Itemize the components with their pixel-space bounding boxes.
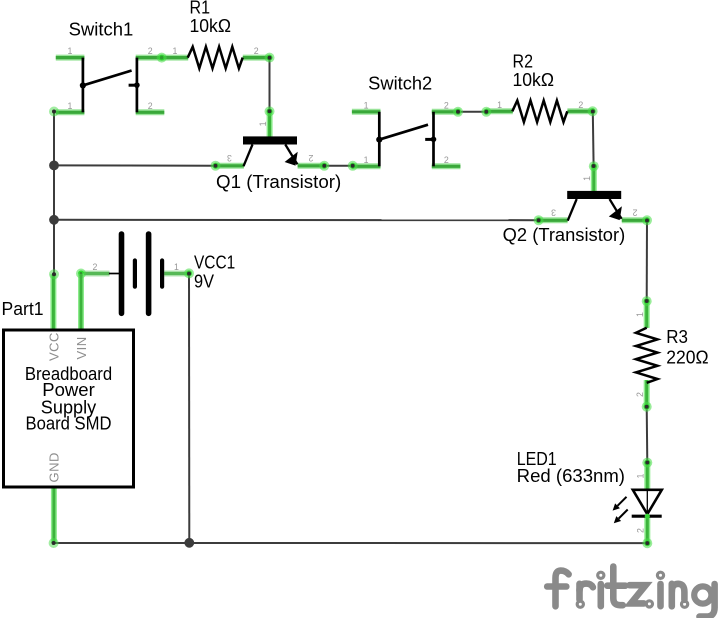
IC Part1 breadboard power supply board xyxy=(4,274,134,544)
svg-text:2: 2 xyxy=(444,155,449,165)
svg-text:GND: GND xyxy=(46,452,61,482)
resistor R2 10k xyxy=(486,100,594,122)
svg-text:VCC: VCC xyxy=(46,332,61,361)
svg-text:1: 1 xyxy=(68,101,73,111)
svg-text:3: 3 xyxy=(551,208,556,218)
svg-text:1: 1 xyxy=(174,262,179,272)
resistor R3 220 xyxy=(635,301,657,407)
svg-text:220Ω: 220Ω xyxy=(666,348,708,368)
svg-text:Board SMD: Board SMD xyxy=(26,414,112,434)
svg-text:1: 1 xyxy=(173,46,178,56)
svg-text:2: 2 xyxy=(636,528,646,533)
switch Switch1 xyxy=(56,46,165,112)
wire W10 LED1 pin2 to GND of Part1 xyxy=(49,538,653,548)
battery VCC1 9V xyxy=(76,234,189,313)
svg-text:3: 3 xyxy=(227,153,232,163)
svg-text:Q1 (Transistor): Q1 (Transistor) xyxy=(216,172,341,192)
svg-text:1: 1 xyxy=(258,121,268,126)
label R2 value 10k xyxy=(513,52,555,91)
svg-text:Part1: Part1 xyxy=(2,299,44,319)
fritzing watermark logo xyxy=(547,567,714,617)
switch Switch2 xyxy=(352,100,461,166)
svg-text:9V: 9V xyxy=(194,271,214,291)
svg-text:1: 1 xyxy=(68,46,73,56)
svg-text:1: 1 xyxy=(582,176,592,181)
svg-text:10kΩ: 10kΩ xyxy=(190,16,232,36)
svg-text:1: 1 xyxy=(364,155,369,165)
svg-text:R1: R1 xyxy=(190,0,211,17)
svg-text:2: 2 xyxy=(635,392,645,397)
svg-text:2: 2 xyxy=(254,46,259,56)
label LED1 xyxy=(517,449,625,486)
label R3 value 220 xyxy=(666,327,708,367)
wire W3 node B to Q2 pin3 xyxy=(54,215,544,225)
wire W6 Switch2 pin2 to R2 pin1 xyxy=(453,107,491,117)
svg-text:1: 1 xyxy=(497,100,502,110)
svg-text:2: 2 xyxy=(148,101,153,111)
wire W8 Q2 pin2 down to R3 pin1 xyxy=(642,215,652,306)
junction node C bottom net xyxy=(184,538,194,548)
svg-text:2: 2 xyxy=(148,46,153,56)
svg-text:Switch2: Switch2 xyxy=(368,73,432,93)
svg-text:Red (633nm): Red (633nm) xyxy=(517,466,625,486)
svg-text:10kΩ: 10kΩ xyxy=(513,70,555,90)
svg-text:2: 2 xyxy=(93,262,98,272)
wire W1 switch1 pin1 down to VCC node xyxy=(49,107,59,280)
svg-text:2: 2 xyxy=(633,208,638,218)
transistor Q1 xyxy=(215,111,324,166)
svg-text:1: 1 xyxy=(636,473,646,478)
svg-text:2: 2 xyxy=(444,100,449,110)
wire W2 node A to Q1 pin3 xyxy=(54,161,221,171)
wire W7 R2 pin2 down to Q2 pin1 xyxy=(588,106,599,171)
wire W11 VCC1 pin1 down to bottom net xyxy=(184,268,194,542)
svg-text:2: 2 xyxy=(578,100,583,110)
wire W9 R3 pin2 down to LED1 pin1 xyxy=(642,402,653,468)
svg-text:1: 1 xyxy=(364,100,369,110)
svg-text:Q2 (Transistor): Q2 (Transistor) xyxy=(503,225,626,245)
svg-text:VCC1: VCC1 xyxy=(194,252,235,272)
svg-text:VIN: VIN xyxy=(74,336,89,359)
svg-text:R2: R2 xyxy=(513,52,534,72)
junction node B xyxy=(49,215,59,225)
LED LED1 red xyxy=(613,463,662,544)
resistor R1 10k xyxy=(157,46,270,68)
wire W4 Q1 pin2 to Switch2 pin1 xyxy=(319,161,357,171)
wire W5 R1 pin2 down to Q1 pin1 xyxy=(265,53,275,117)
label R1 value 10k xyxy=(190,0,232,36)
svg-text:Switch1: Switch1 xyxy=(69,20,134,40)
svg-text:R3: R3 xyxy=(666,327,688,347)
junction node A xyxy=(49,161,59,171)
svg-text:2: 2 xyxy=(308,153,313,163)
transistor Q2 xyxy=(539,166,648,221)
label VCC1 9V xyxy=(194,252,235,291)
svg-text:1: 1 xyxy=(635,312,645,317)
